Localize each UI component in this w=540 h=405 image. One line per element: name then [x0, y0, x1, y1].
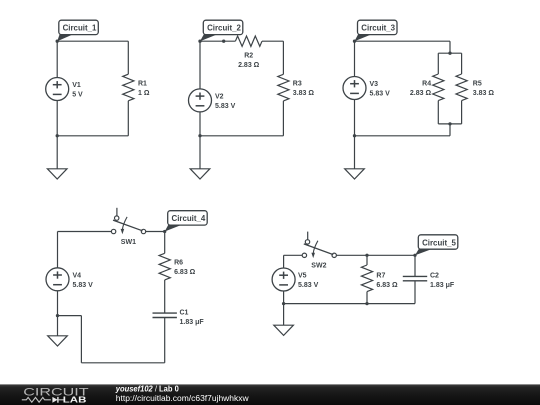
- svg-text:Circuit_2: Circuit_2: [207, 24, 241, 33]
- svg-text:SW1: SW1: [121, 239, 136, 246]
- svg-text:V5: V5: [298, 273, 307, 280]
- svg-text:5 V: 5 V: [72, 92, 83, 99]
- svg-text:5.83 V: 5.83 V: [370, 91, 391, 98]
- svg-text:Circuit_1: Circuit_1: [63, 24, 97, 33]
- svg-text:V4: V4: [73, 272, 82, 279]
- svg-text:R6: R6: [174, 260, 183, 267]
- svg-text:1.83 μF: 1.83 μF: [430, 282, 455, 289]
- svg-text:6.83 Ω: 6.83 Ω: [376, 282, 398, 289]
- svg-text:SW2: SW2: [311, 263, 326, 270]
- svg-text:LAB: LAB: [63, 394, 87, 404]
- svg-text:3.83 Ω: 3.83 Ω: [293, 90, 315, 97]
- svg-text:Circuit_4: Circuit_4: [172, 214, 206, 223]
- svg-text:R1: R1: [138, 81, 147, 88]
- svg-text:V3: V3: [370, 81, 379, 88]
- svg-text:5.83 V: 5.83 V: [215, 103, 236, 110]
- svg-text:C1: C1: [180, 309, 189, 316]
- svg-text:2.83 Ω: 2.83 Ω: [410, 90, 432, 97]
- svg-text:5.83 V: 5.83 V: [73, 282, 94, 289]
- svg-text:Circuit_3: Circuit_3: [361, 24, 395, 33]
- svg-text:V1: V1: [72, 82, 81, 89]
- svg-text:R7: R7: [376, 272, 385, 279]
- svg-text:V2: V2: [215, 94, 224, 101]
- svg-text:Circuit_5: Circuit_5: [422, 238, 456, 247]
- svg-text:1 Ω: 1 Ω: [138, 90, 150, 97]
- svg-text:R3: R3: [293, 81, 302, 88]
- svg-text:5.83 V: 5.83 V: [298, 282, 319, 289]
- svg-text:R5: R5: [473, 80, 482, 87]
- svg-text:C2: C2: [430, 273, 439, 280]
- svg-text:3.83 Ω: 3.83 Ω: [473, 90, 495, 97]
- svg-text:R4: R4: [422, 80, 431, 87]
- svg-text:1.83 μF: 1.83 μF: [180, 319, 205, 326]
- svg-text:6.83 Ω: 6.83 Ω: [174, 269, 196, 276]
- svg-text:2.83 Ω: 2.83 Ω: [238, 62, 260, 69]
- svg-text:http://circuitlab.com/c63f7ujh: http://circuitlab.com/c63f7ujhwhkxw: [116, 393, 249, 403]
- svg-text:R2: R2: [244, 53, 253, 60]
